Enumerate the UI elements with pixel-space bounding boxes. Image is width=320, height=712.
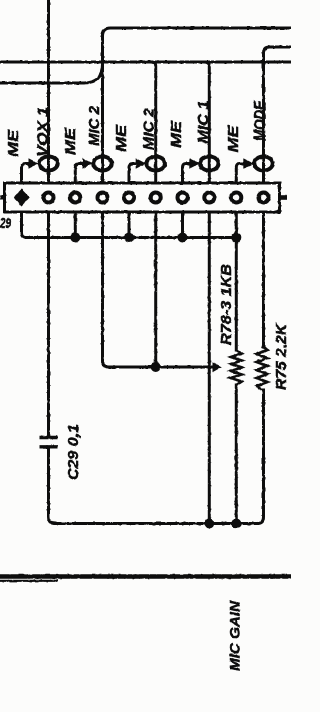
wire pin4 down with elbow to pot wiper line — [103, 212, 213, 367]
wire pin6 down to wiper junction — [154, 212, 157, 367]
svg-text:ME: ME — [168, 120, 185, 148]
junction dot pin5/bus — [124, 233, 134, 243]
resistor R75 zigzag — [257, 346, 268, 390]
wire ME pin9 elbow to plug arrow — [236, 164, 244, 184]
svg-text:R78-3 1KB: R78-3 1KB — [218, 264, 235, 345]
svg-text:MODE: MODE — [252, 100, 270, 141]
jack socket oval MIC1 — [200, 157, 218, 171]
jack socket oval MODE — [254, 157, 272, 171]
svg-text:MIC 1: MIC 1 — [195, 101, 212, 144]
plug arrow ME/VOX1 — [29, 158, 39, 169]
svg-text:ME: ME — [113, 124, 130, 152]
connector strip J outline — [5, 183, 280, 212]
plug arrow ME/MIC2 — [83, 158, 93, 169]
jack socket oval MIC2 b — [147, 157, 165, 171]
svg-text:MIC 2: MIC 2 — [86, 105, 103, 146]
svg-text:ME: ME — [5, 129, 22, 157]
pin 9 circle — [231, 193, 241, 203]
wire pin8 down to bottom line — [208, 212, 211, 524]
jack socket oval MIC2 — [93, 157, 111, 171]
resistor R78-3 zigzag (pot element) — [231, 350, 242, 385]
pin 8 circle — [204, 193, 214, 203]
wire ME pin5 elbow to plug arrow — [129, 164, 137, 184]
svg-text:VOX 1: VOX 1 — [35, 107, 52, 157]
wire pin5 stub to bus — [128, 212, 131, 238]
wire horizontal net y83 curving up into pin4 riser — [0, 64, 103, 83]
junction dot pin3/bus — [70, 233, 80, 243]
svg-text:R75 2.2K: R75 2.2K — [273, 323, 290, 390]
pot wiper arrow — [213, 362, 222, 372]
plug arrow ME/MODE — [243, 158, 253, 169]
junction dot pin9/bus — [231, 233, 241, 243]
plug arrow ME/MIC1 — [189, 158, 199, 169]
svg-text:MIC 2: MIC 2 — [141, 107, 158, 150]
wire ME pin3 elbow to plug arrow — [75, 164, 83, 184]
wire pin1 stub down into ME bus corner — [22, 212, 27, 238]
junction dot pin6/wiper — [151, 362, 161, 372]
connector strip right tab — [280, 195, 288, 200]
pin 3 circle — [70, 193, 80, 203]
pin 7 circle — [178, 193, 188, 203]
wire pin7 stub to bus — [181, 212, 184, 238]
svg-text:MIC GAIN: MIC GAIN — [227, 600, 243, 671]
pin 5 circle — [124, 193, 134, 203]
wire MIC2 pin6 riser joining y62 net — [152, 62, 156, 183]
wire MODE pin10 riser with elbow to right edge y47 — [264, 47, 292, 183]
wire VOX1 riser (pin2 vertical to top edge) — [47, 0, 50, 183]
wire pot R78-3 bottom lead — [235, 385, 238, 524]
svg-text:ME: ME — [225, 124, 242, 152]
wire pin10 down to R75 — [262, 212, 265, 346]
wire ME pin1 elbow to plug arrow — [22, 164, 30, 184]
junction dot pin7/bus — [178, 233, 188, 243]
jack socket oval VOX1 — [39, 157, 57, 171]
svg-text:ME: ME — [62, 127, 79, 155]
wire MIC2 pin4 riser with top elbow to right edge y28 — [103, 28, 292, 183]
plug arrow ME/MIC2 b — [136, 158, 146, 169]
wire R75 bottom lead with corner into bottom line — [258, 390, 264, 524]
pin 10 circle — [259, 193, 269, 203]
bottom wire line — [55, 522, 258, 525]
wire pin9 down to pot R78-3 — [235, 212, 238, 350]
pin 1 filled diamond — [13, 189, 29, 206]
wire pin2 down to capacitor — [47, 212, 50, 436]
svg-text:29: 29 — [0, 215, 11, 232]
wire ME pin7 elbow to plug arrow — [183, 164, 191, 184]
junction dot R78-3/bottom — [231, 519, 241, 529]
svg-text:C29 0,1: C29 0,1 — [65, 424, 82, 480]
pin 4 circle — [98, 193, 108, 203]
wire pin3 stub to bus — [74, 212, 77, 238]
pin 2 circle — [44, 193, 54, 203]
wire horizontal net at y62 — [0, 61, 291, 64]
wire pin2 capacitor to bottom elbow — [49, 449, 56, 524]
pin 6 circle — [151, 193, 161, 203]
connector strip left tab — [0, 196, 5, 200]
panel boundary thick rule — [0, 574, 291, 579]
wire MIC1 pin8 riser joining y62 net — [205, 62, 209, 183]
ME bus horizontal — [26, 236, 236, 239]
junction dot pin8/bottom — [204, 519, 214, 529]
capacitor C29 plates — [40, 438, 58, 447]
